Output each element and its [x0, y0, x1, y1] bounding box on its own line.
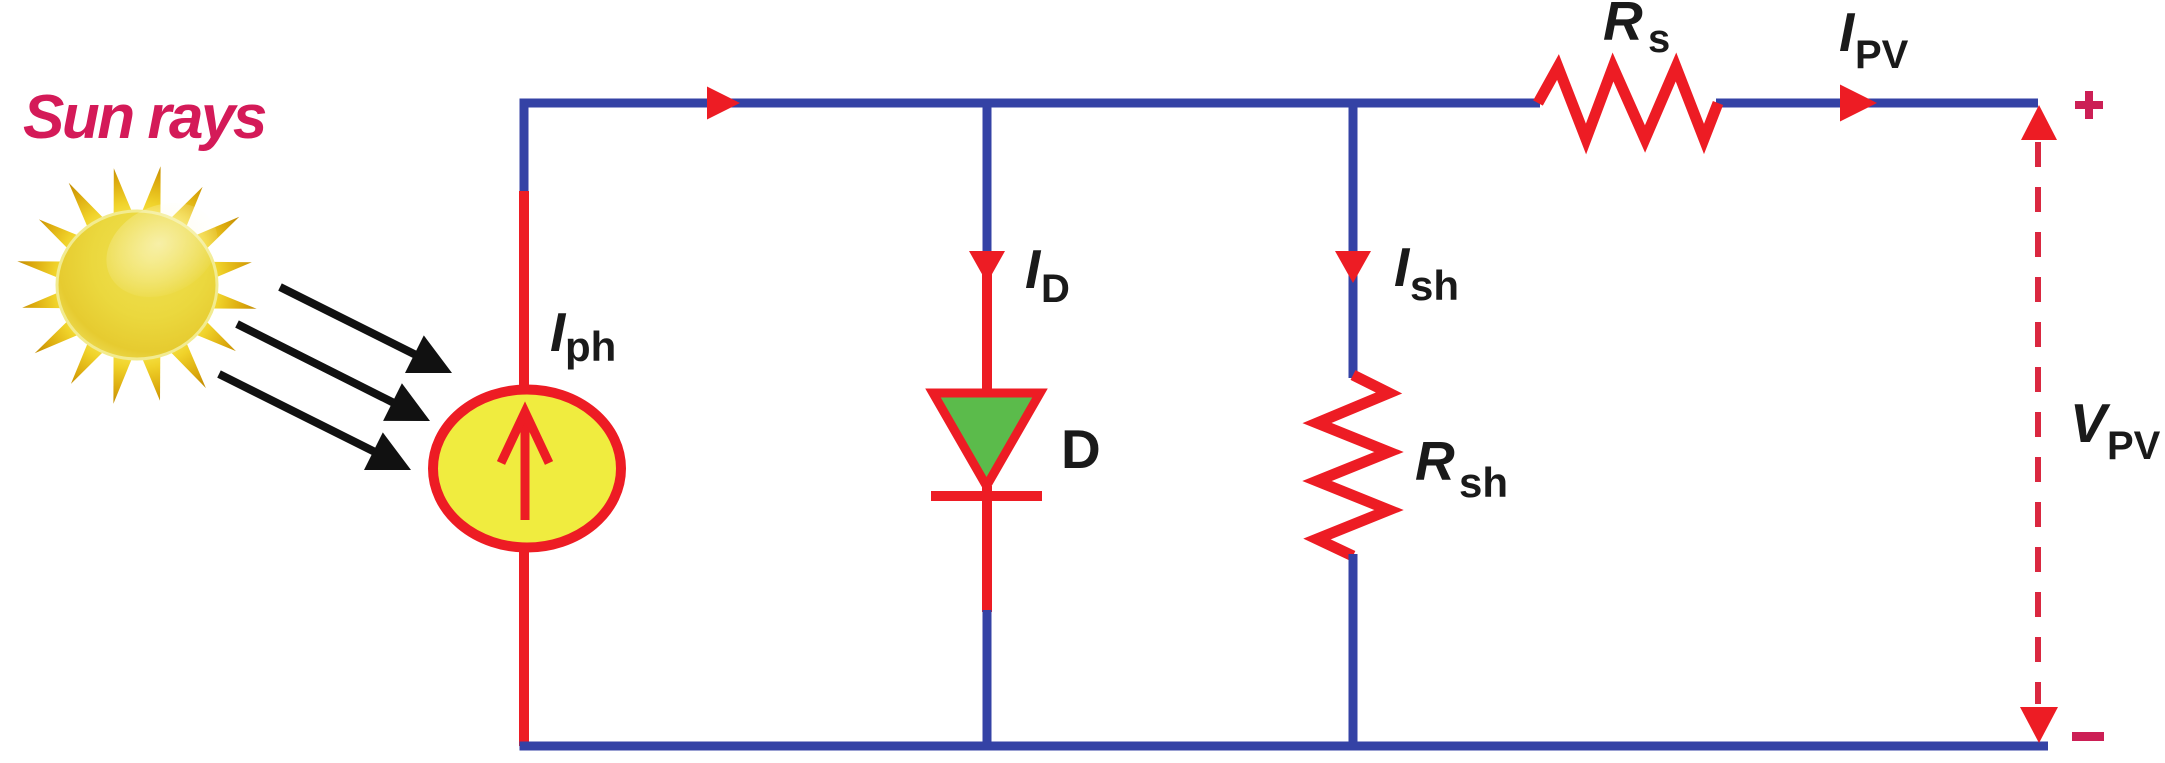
wire: bottom horizontal (blue) [520, 742, 2049, 751]
svg-text:D: D [1041, 267, 1070, 311]
wire: Rsh branch top (blue) [1349, 103, 1358, 378]
label Iph [550, 301, 616, 370]
sun ray arrow 2 [237, 324, 430, 421]
current source Iph circle [433, 390, 621, 548]
label Rsh [1415, 430, 1508, 506]
plus terminal label [2075, 91, 2103, 119]
minus terminal label [2072, 732, 2104, 741]
label ID [1025, 238, 1070, 311]
wire: diode branch anode (red) [982, 255, 992, 398]
resistor Rs zigzag [1538, 67, 1718, 139]
svg-text:PV: PV [1855, 33, 1909, 77]
wire: top-left vertical (blue) [520, 99, 529, 194]
svg-text:s: s [1648, 17, 1670, 61]
current flow arrow on top wire (red, right) [707, 87, 740, 120]
sun ray arrow 3 [219, 374, 411, 470]
current source arrow (red, up) [501, 412, 549, 520]
wire: top horizontal left segment (blue) [520, 99, 1541, 108]
wire: diode branch cathode (red) [982, 486, 992, 612]
svg-text:I: I [1025, 238, 1042, 300]
current arrow ID (red, down) [969, 251, 1005, 283]
svg-text:sh: sh [1459, 459, 1508, 506]
current arrow Ish (red, down) [1335, 251, 1371, 283]
sun [17, 166, 256, 403]
VPV arrowhead down [2020, 707, 2058, 743]
wire: diode branch top (blue) [983, 103, 992, 253]
wire: diode branch bottom (blue) [983, 610, 992, 746]
label VPV [2070, 392, 2161, 468]
diode D cathode bar [931, 491, 1042, 501]
wire: top horizontal right segment (blue) [1716, 99, 2038, 108]
svg-text:I: I [1839, 1, 1856, 63]
sun ray arrow 1 [280, 287, 452, 373]
svg-text:V: V [2070, 392, 2111, 454]
VPV dashed measurement line [2035, 142, 2041, 704]
svg-text:I: I [1394, 236, 1411, 298]
svg-text:ph: ph [565, 323, 616, 370]
svg-text:PV: PV [2107, 424, 2161, 468]
diode D triangle [933, 393, 1040, 486]
svg-text:R: R [1603, 0, 1643, 52]
svg-text:sh: sh [1410, 262, 1459, 309]
resistor Rsh zigzag [1317, 375, 1389, 556]
VPV arrowhead up [2021, 105, 2057, 140]
label Ish [1394, 236, 1459, 309]
current arrow IPV (red, right) [1840, 85, 1877, 122]
svg-text:D: D [1061, 418, 1101, 480]
label IPV [1839, 1, 1909, 77]
wire: left vertical (red) [519, 191, 529, 746]
svg-text:R: R [1415, 430, 1455, 492]
label Rs [1603, 0, 1670, 61]
wire: Rsh branch bottom (blue) [1349, 554, 1358, 746]
svg-text:Sun rays: Sun rays [23, 83, 266, 152]
